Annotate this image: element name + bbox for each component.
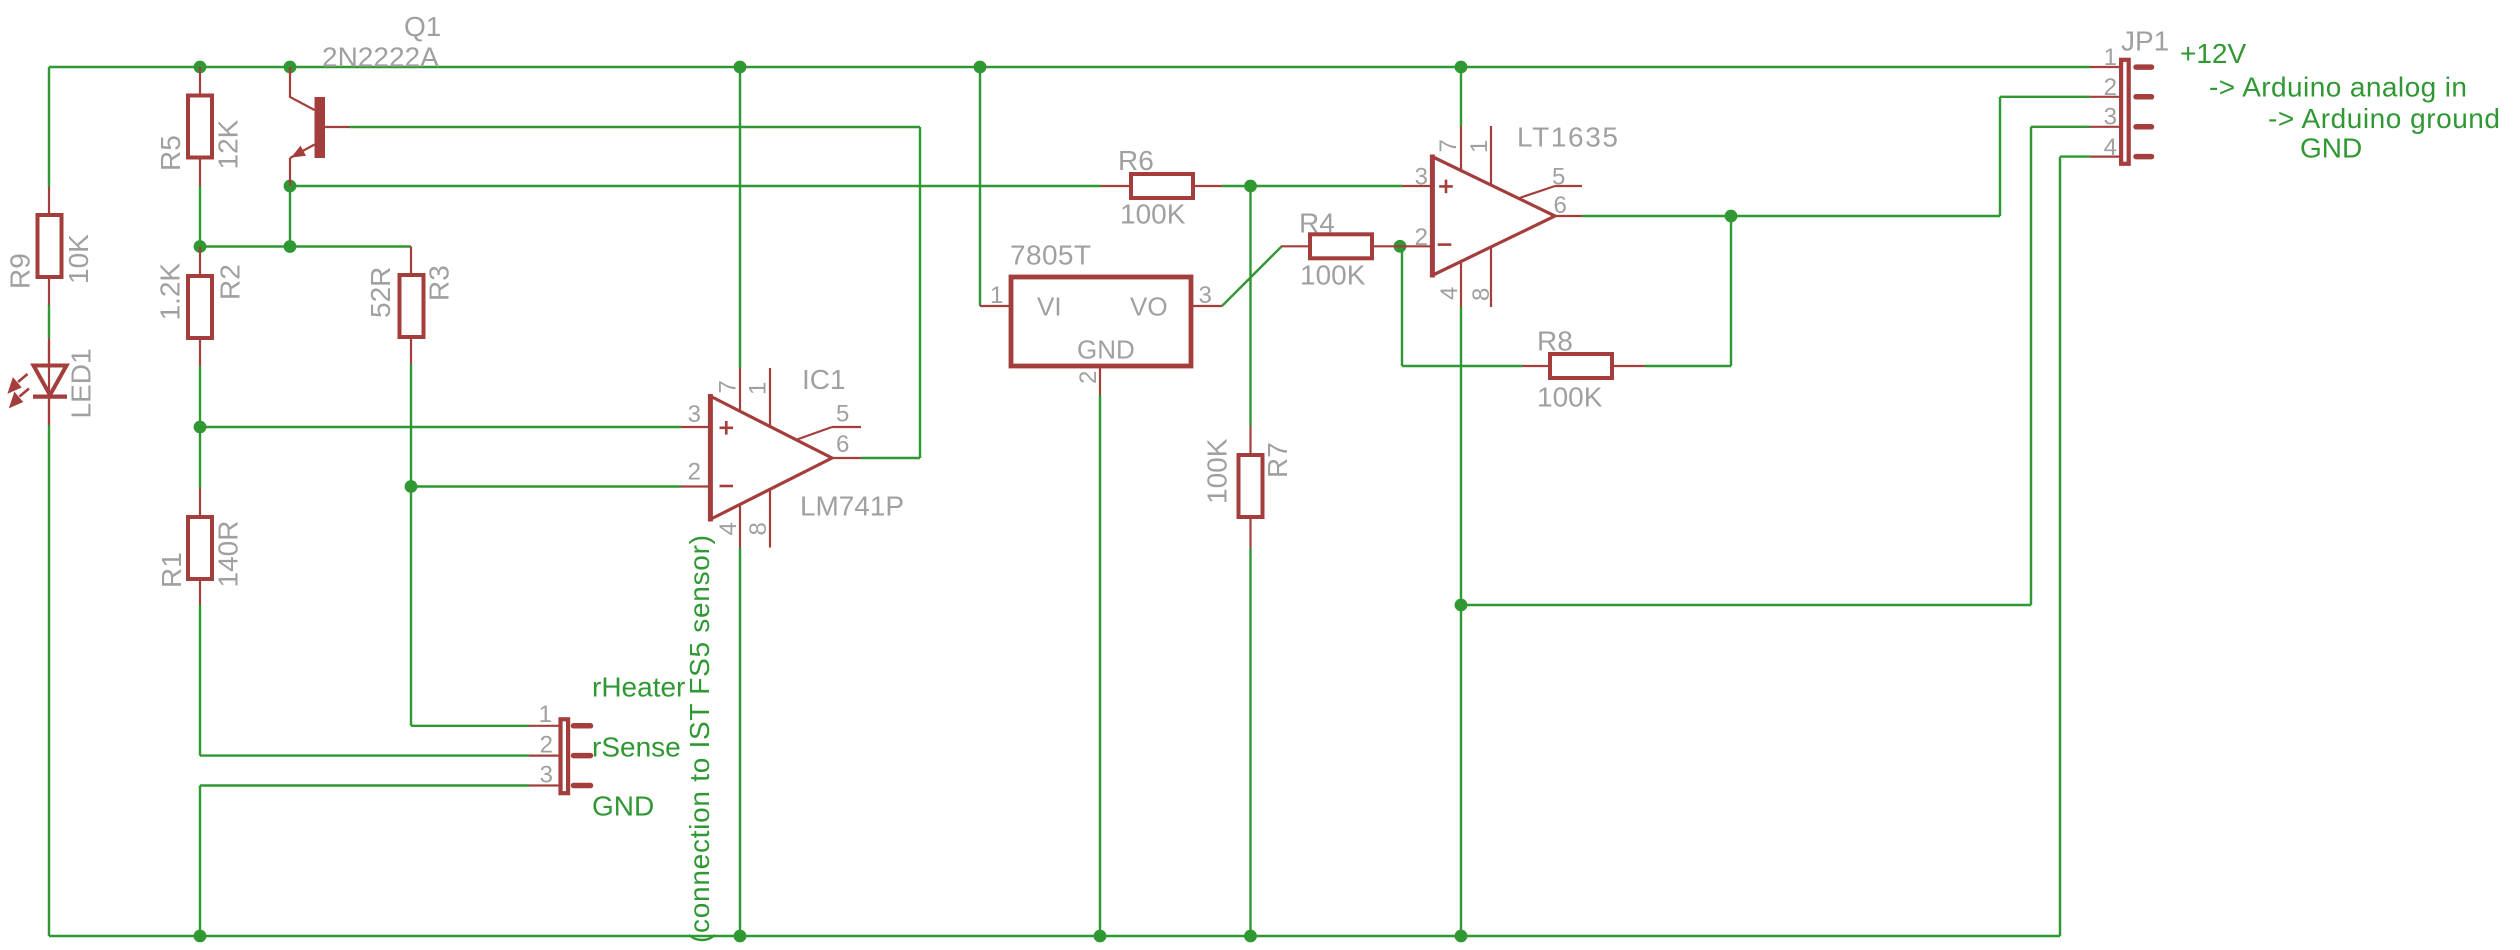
svg-text:GND: GND (2300, 133, 2362, 164)
svg-text:5: 5 (1552, 164, 1565, 191)
svg-text:3: 3 (2104, 104, 2117, 131)
svg-text:6: 6 (836, 431, 849, 458)
svg-text:3: 3 (688, 401, 701, 428)
svg-text:R4: R4 (1299, 208, 1335, 239)
svg-text:4: 4 (715, 522, 742, 535)
svg-text:LM741P: LM741P (800, 491, 904, 522)
svg-text:R5: R5 (155, 135, 186, 171)
svg-text:-> Arduino analog in: -> Arduino analog in (2209, 72, 2467, 103)
svg-text:8: 8 (1468, 288, 1495, 301)
svg-text:1: 1 (2104, 44, 2117, 71)
svg-text:(connection to IST FS5 sensor): (connection to IST FS5 sensor) (684, 535, 715, 943)
svg-text:7: 7 (1435, 139, 1462, 152)
svg-text:-> Arduino ground: -> Arduino ground (2268, 103, 2500, 134)
svg-text:R9: R9 (5, 253, 36, 289)
svg-text:R6: R6 (1118, 145, 1154, 176)
svg-text:100K: 100K (1120, 199, 1186, 230)
svg-text:1: 1 (539, 701, 552, 728)
svg-text:2: 2 (2104, 74, 2117, 101)
svg-text:R1: R1 (156, 552, 187, 588)
svg-text:140R: 140R (213, 521, 244, 588)
svg-text:2: 2 (1075, 371, 1102, 384)
svg-text:R7: R7 (1262, 442, 1293, 478)
svg-text:12K: 12K (212, 119, 243, 169)
svg-text:7805T: 7805T (1010, 240, 1091, 271)
svg-text:R3: R3 (424, 265, 455, 301)
svg-text:2: 2 (540, 732, 553, 759)
svg-text:4: 4 (1436, 287, 1463, 300)
svg-text:52R: 52R (365, 267, 396, 318)
svg-text:3: 3 (540, 762, 553, 789)
svg-text:1: 1 (990, 282, 1003, 309)
svg-text:R2: R2 (215, 264, 246, 300)
svg-text:5: 5 (836, 401, 849, 428)
svg-text:LT1635: LT1635 (1517, 122, 1618, 153)
svg-text:100K: 100K (1537, 382, 1603, 413)
svg-text:Q1: Q1 (404, 11, 441, 42)
svg-text:1: 1 (1466, 140, 1493, 153)
svg-text:2: 2 (688, 459, 701, 486)
svg-text:3: 3 (1199, 282, 1212, 309)
svg-text:R8: R8 (1537, 326, 1573, 357)
svg-text:JP1: JP1 (2121, 26, 2169, 57)
svg-text:7: 7 (715, 380, 742, 393)
svg-text:1.2K: 1.2K (155, 263, 186, 321)
svg-text:100K: 100K (1300, 260, 1366, 291)
svg-text:+12V: +12V (2180, 38, 2246, 69)
svg-text:3: 3 (1415, 164, 1428, 191)
svg-text:1: 1 (745, 382, 772, 395)
svg-text:rHeater: rHeater (592, 672, 685, 703)
svg-text:GND: GND (592, 791, 654, 822)
svg-text:100K: 100K (1201, 438, 1232, 504)
svg-text:IC1: IC1 (802, 364, 846, 395)
svg-text:6: 6 (1554, 192, 1567, 219)
svg-text:VO: VO (1130, 292, 1168, 322)
svg-text:VI: VI (1037, 292, 1062, 322)
svg-text:GND: GND (1077, 335, 1135, 365)
svg-text:rSense: rSense (592, 732, 681, 763)
svg-text:10K: 10K (63, 234, 94, 284)
svg-text:2N2222A: 2N2222A (322, 42, 439, 73)
svg-text:2: 2 (1415, 224, 1428, 251)
svg-text:LED1: LED1 (66, 348, 97, 418)
svg-text:8: 8 (745, 522, 772, 535)
svg-text:4: 4 (2104, 134, 2117, 161)
